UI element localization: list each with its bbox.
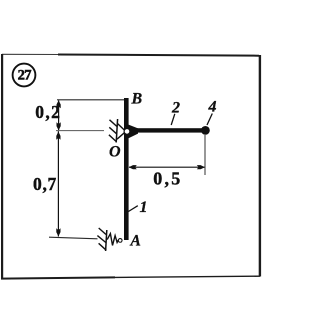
boss flare at O joint bbox=[129, 125, 139, 139]
svg-text:A: A bbox=[130, 232, 141, 249]
svg-text:2: 2 bbox=[171, 100, 180, 117]
extension line at O level bbox=[56, 130, 104, 132]
hatching at A bbox=[97, 228, 106, 250]
dimension 0,5 (horizontal double arrow) bbox=[129, 165, 205, 169]
support link lines at O (triangle to pin) bbox=[117, 123, 125, 139]
svg-text:1: 1 bbox=[140, 199, 148, 216]
svg-text:0,2: 0,2 bbox=[35, 102, 61, 122]
svg-text:27: 27 bbox=[18, 68, 32, 84]
leader line for 2 bbox=[171, 114, 175, 125]
problem number badge 27 bbox=[13, 64, 36, 87]
dimension 0,7 (vertical double arrow) bbox=[56, 131, 60, 236]
frame border (decorative) bbox=[1, 54, 260, 279]
svg-text:0,5: 0,5 bbox=[153, 168, 182, 188]
extension line at A level bbox=[49, 237, 98, 239]
hatching at O bbox=[109, 120, 117, 142]
svg-text:O: O bbox=[109, 144, 121, 161]
leader line for 1 bbox=[128, 206, 137, 212]
zigzag link at A bbox=[107, 234, 118, 246]
support wall at O bbox=[116, 119, 117, 143]
point 4 (ball) bbox=[201, 126, 210, 135]
pin at A bbox=[118, 238, 123, 243]
leader line for 4 bbox=[207, 114, 212, 126]
support wall at A bbox=[106, 230, 107, 251]
rod 1 (vertical rod B-A) bbox=[124, 98, 129, 240]
svg-text:4: 4 bbox=[208, 99, 217, 116]
dimension 0,2 (vertical double arrow) bbox=[57, 100, 61, 130]
extension line below point 4 bbox=[204, 135, 206, 175]
pin at O bbox=[124, 128, 131, 135]
extension line at B level bbox=[57, 99, 124, 101]
svg-text:B: B bbox=[131, 91, 143, 108]
svg-text:0,7: 0,7 bbox=[33, 174, 57, 194]
rod 2 (horizontal) bbox=[128, 128, 203, 132]
